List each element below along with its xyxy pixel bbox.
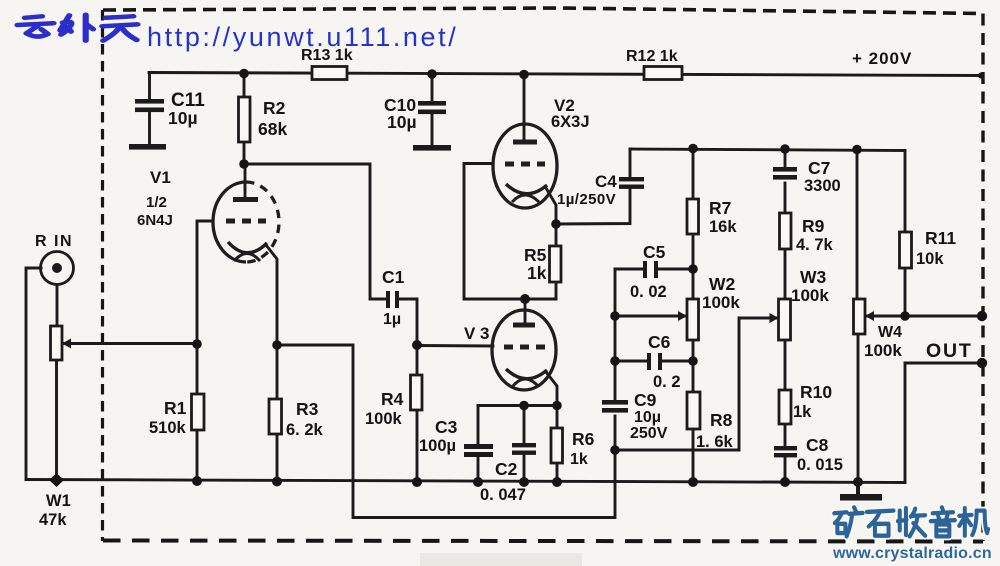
wire R9 to W3 — [784, 249, 787, 299]
node V1 cathode / R3 / feedback — [272, 340, 282, 350]
svg-text:R7: R7 — [709, 198, 731, 218]
svg-text:1µ/250V: 1µ/250V — [557, 191, 616, 208]
svg-text:10µ: 10µ — [634, 409, 661, 426]
node C2 top tap — [519, 401, 529, 411]
svg-text:10µ: 10µ — [168, 108, 198, 128]
wire OUT return line — [905, 362, 983, 365]
svg-text:6X3J: 6X3J — [551, 113, 590, 131]
wire R3 top lead — [276, 345, 279, 399]
capacitor C4 1µ/250V plates — [619, 177, 644, 181]
svg-text:W3: W3 — [800, 267, 827, 287]
wire W4 top lead — [856, 150, 859, 300]
svg-text:47k: 47k — [39, 511, 67, 529]
svg-text:C7: C7 — [808, 158, 830, 178]
capacitor C2 0.047 plates — [512, 443, 536, 447]
node C5 right at R7/W2 column — [688, 264, 698, 274]
wire C10 bottom lead to ground — [431, 113, 434, 145]
resistor R5 1k — [550, 246, 562, 282]
svg-text:C4: C4 — [595, 172, 617, 191]
node C2 on ground bus — [519, 477, 529, 487]
chassis ground symbol — [856, 482, 860, 495]
wire C11 top lead — [148, 73, 151, 101]
wire V1 grid lead — [197, 221, 213, 344]
node supply at V2 plate — [519, 70, 529, 80]
node R8 on ground bus — [688, 477, 698, 487]
node W1 bottom on ground bus — [49, 473, 64, 487]
node V1 plate / R2 / C1 — [239, 159, 249, 169]
wire W4 wiper to OUT terminal — [865, 315, 983, 318]
wire R7 top lead — [692, 149, 695, 200]
wire W2 wiper row — [615, 315, 687, 318]
potentiometer W1 47k body — [51, 326, 63, 360]
wire W3 to R10 — [784, 340, 787, 390]
svg-text:C1: C1 — [382, 267, 405, 287]
svg-text:0. 2: 0. 2 — [653, 373, 681, 391]
potentiometer W2 100k body — [687, 299, 699, 340]
wire V2 plate lead — [523, 74, 526, 141]
svg-text:W2: W2 — [709, 274, 736, 294]
wire R7 bottom to W2 top — [692, 234, 695, 299]
wire negative feedback path from V1 cathode — [277, 345, 615, 518]
svg-text:R3: R3 — [296, 399, 319, 419]
svg-text:V 3: V 3 — [464, 324, 490, 343]
watermark hanzi kuang-shi-shou-yin-ji bottom-right — [834, 507, 988, 536]
node OUT terminal bottom — [977, 358, 987, 368]
scanner shading strip — [420, 553, 582, 566]
node W2 wiper at tone column — [610, 311, 620, 321]
potentiometer W3 100k body — [779, 299, 791, 340]
svg-text:OUT: OUT — [926, 340, 973, 362]
ground bar of C11 — [129, 144, 166, 150]
svg-text:R12 1k: R12 1k — [626, 48, 678, 65]
resistor R7 16k — [687, 199, 699, 234]
capacitor C6 0.2 plates — [647, 353, 651, 370]
node V1 grid / W1 wiper / R1 — [192, 339, 202, 349]
wire R6 top lead — [556, 406, 559, 429]
svg-text:R1: R1 — [164, 398, 187, 418]
potentiometer W2 wiper arrow — [678, 311, 687, 321]
svg-text:+ 200V: + 200V — [852, 49, 912, 68]
wire plate node V1 to C1 left plate — [244, 164, 386, 299]
wire W3 wiper to feedback node — [615, 318, 778, 450]
wire output stage node line — [630, 149, 905, 151]
wire C8 bottom lead — [784, 457, 787, 482]
svg-text:W4: W4 — [878, 324, 902, 341]
svg-text:250V: 250V — [630, 425, 668, 442]
capacitor C3 100µ plates — [464, 444, 493, 449]
wire R2 bottom lead — [243, 142, 246, 164]
wire R5 bottom lead — [555, 282, 558, 299]
node line at R7 — [688, 144, 698, 154]
svg-text:C3: C3 — [435, 417, 458, 437]
capacitor C11 10µ plates — [135, 99, 164, 104]
potentiometer W3 wiper arrow — [770, 313, 779, 323]
svg-text:100k: 100k — [365, 410, 403, 428]
node line at W4 — [852, 145, 862, 155]
svg-text:4. 7k: 4. 7k — [796, 236, 834, 254]
wire W4 bottom lead — [857, 334, 860, 482]
resistor R8 1.6k — [687, 392, 700, 429]
resistor R10 1k — [779, 390, 791, 424]
wire C3 top lead — [477, 406, 480, 445]
potentiometer W1 wiper arrow — [62, 339, 71, 349]
wire C5 left lead — [615, 268, 643, 271]
svg-text:10µ: 10µ — [387, 112, 417, 132]
wire C10 top lead — [431, 74, 434, 102]
svg-text:1/2: 1/2 — [146, 194, 167, 211]
node R3 on ground bus — [272, 477, 282, 487]
node V3 cathode at R6 — [552, 401, 562, 411]
potentiometer W4 wiper arrow — [865, 311, 874, 321]
wire C6 left lead — [615, 360, 647, 363]
svg-text:100k: 100k — [702, 293, 740, 312]
resistor R6 1k — [551, 428, 563, 463]
wire C7 top lead — [784, 149, 787, 167]
node supply at R2 — [239, 69, 249, 79]
triode V1 (1/2 6N4J) — [213, 182, 279, 262]
svg-text:R IN: R IN — [35, 233, 73, 250]
wire W2 bottom to R8 top — [692, 340, 695, 392]
wire V3 cathode lead — [546, 372, 557, 405]
svg-text:6. 2k: 6. 2k — [286, 421, 324, 439]
svg-text:1k: 1k — [793, 403, 812, 421]
svg-text:R6: R6 — [572, 429, 595, 449]
wire V2 cathode lead — [546, 188, 556, 224]
wire C4 top lead to node line — [629, 149, 632, 177]
node OUT terminal top — [977, 311, 987, 321]
node feedback / C9 / W3 wiper — [610, 445, 620, 455]
node supply rail end at border — [978, 73, 984, 79]
wire R11 bottom lead — [904, 268, 907, 316]
wire ground bus — [26, 480, 905, 483]
wire C7 to R9 — [784, 183, 787, 213]
triode V2 (6X3J) — [493, 124, 557, 208]
wire R1 top lead — [196, 344, 199, 394]
svg-text:1k: 1k — [527, 263, 547, 283]
svg-text:C2: C2 — [495, 459, 518, 479]
wire R6 bottom lead — [556, 463, 559, 482]
svg-text:C9: C9 — [634, 390, 657, 410]
svg-text:3300: 3300 — [804, 177, 841, 195]
wire V2 cathode node to C4 — [556, 189, 630, 224]
wire C2 top lead — [523, 406, 526, 444]
capacitor C9 10µ/250V plates — [602, 400, 628, 405]
wire C2 bottom lead — [523, 454, 526, 482]
potentiometer W4 100k body — [854, 299, 866, 334]
svg-text:R5: R5 — [524, 245, 547, 265]
svg-text:0. 02: 0. 02 — [630, 283, 667, 301]
wire R4 bottom lead — [416, 410, 419, 482]
resistor R4 100k — [411, 375, 423, 410]
svg-text:R2: R2 — [263, 98, 286, 118]
node R4 on ground bus — [412, 477, 422, 487]
node R11 bottom at W4 wiper — [900, 311, 910, 321]
wire R4 top lead — [416, 345, 419, 375]
input connector R IN — [41, 252, 74, 285]
resistor R3 6.2k — [269, 399, 282, 434]
wire OUT return to ground bus — [904, 363, 907, 483]
svg-text:1µ: 1µ — [383, 311, 401, 328]
wire tone column C5 to C9 — [614, 269, 617, 400]
node W4 / chassis ground on bus — [853, 477, 863, 487]
watermark hanzi yun-wai-tian top-left — [17, 15, 137, 41]
wire W1 wiper to V1 grid node — [62, 342, 197, 345]
svg-text:10k: 10k — [916, 250, 944, 268]
wire V3 grid lead — [417, 344, 493, 347]
wire V1 plate lead — [244, 163, 247, 200]
resistor R13 1k — [312, 67, 347, 80]
svg-text:R8: R8 — [710, 410, 733, 430]
svg-text:C6: C6 — [648, 332, 671, 352]
svg-text:100k: 100k — [864, 341, 902, 360]
resistor R1 510k — [192, 394, 205, 430]
resistor R12 1k — [644, 67, 682, 80]
svg-text:http://yunwt.u111.net/: http://yunwt.u111.net/ — [147, 22, 458, 52]
node C6 left at tone column — [610, 356, 620, 366]
wire C6 right lead — [663, 360, 693, 363]
node C3 on ground bus — [473, 477, 483, 487]
node R1 on ground bus — [192, 476, 202, 486]
wire V2 grid to V3 plate node — [464, 164, 556, 300]
svg-text:C8: C8 — [806, 435, 829, 455]
svg-text:1. 6k: 1. 6k — [696, 433, 734, 451]
svg-text:16k: 16k — [709, 218, 737, 236]
wire C11 bottom lead to ground — [148, 112, 151, 145]
wire R IN shell to ground bus — [26, 268, 41, 480]
svg-text:1k: 1k — [570, 451, 588, 468]
svg-text:6N4J: 6N4J — [137, 212, 173, 229]
svg-text:R4: R4 — [381, 389, 404, 409]
svg-text:V1: V1 — [150, 168, 171, 187]
capacitor C1 1µ plates — [386, 291, 390, 308]
svg-text:100µ: 100µ — [419, 437, 456, 455]
node C8 on ground bus — [780, 477, 790, 487]
svg-text:www.crystalradio.cn: www.crystalradio.cn — [832, 545, 992, 562]
wire C5 right lead — [658, 268, 693, 271]
svg-text:R9: R9 — [802, 216, 825, 236]
wire C3 bottom lead — [477, 456, 480, 482]
node V3 plate tap — [520, 294, 530, 304]
svg-text:0. 015: 0. 015 — [797, 456, 843, 474]
node R6 on ground bus — [552, 477, 562, 487]
node V3 grid / C1 / R4 — [412, 340, 422, 350]
wire C1 right plate to V3 grid node — [399, 299, 417, 345]
node supply at C10 — [427, 69, 437, 79]
svg-text:0. 047: 0. 047 — [480, 486, 526, 504]
ground bar of C10 — [413, 145, 451, 151]
capacitor C8 0.015 plates — [774, 446, 797, 450]
wire C9 bottom to feedback node — [614, 416, 617, 450]
wire V3 cathode node row — [478, 404, 557, 407]
wire R IN pin to W1 top — [56, 285, 59, 326]
wire R5 top lead — [555, 224, 558, 246]
node line at C7 — [780, 144, 790, 154]
node C6 right at W2/R8 column — [688, 356, 698, 366]
svg-text:68k: 68k — [258, 119, 287, 139]
svg-text:100k: 100k — [791, 286, 829, 305]
wire R3 bottom lead — [276, 434, 279, 482]
wire V3 plate lead — [524, 299, 527, 326]
wire +200V top supply rail — [149, 73, 983, 76]
wire R11 top lead — [904, 151, 907, 233]
wire R8 bottom lead — [692, 429, 695, 482]
capacitor C10 10µ plates — [418, 101, 446, 106]
capacitor C5 0.02 plates — [643, 261, 647, 278]
wire W1 bottom lead — [55, 360, 58, 480]
wire V1 cathode lead — [266, 245, 277, 345]
resistor R11 10k — [900, 232, 912, 268]
svg-text:R11: R11 — [925, 228, 956, 248]
svg-text:510k: 510k — [149, 419, 187, 437]
svg-text:R10: R10 — [800, 382, 832, 402]
resistor R2 68k — [239, 97, 251, 142]
svg-text:C5: C5 — [643, 242, 666, 262]
triode V3 — [492, 310, 556, 390]
resistor R9 4.7k — [780, 213, 792, 249]
capacitor C7 3300 plates — [773, 167, 797, 172]
wire R2 top lead — [243, 73, 246, 97]
node V2 cathode / R5 / C4 — [551, 219, 561, 229]
wire R1 bottom lead — [196, 430, 199, 481]
svg-text:W1: W1 — [46, 492, 71, 510]
wire R10 to C8 — [784, 424, 787, 446]
